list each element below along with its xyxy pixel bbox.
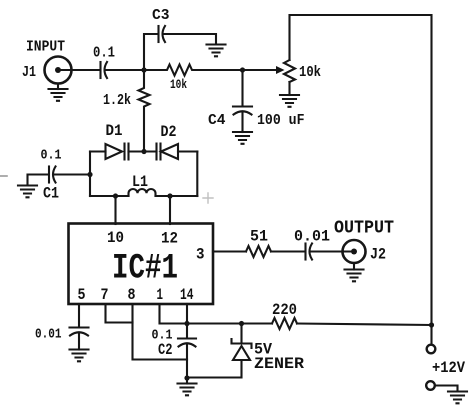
capacitor 0.01 (pin 5 bypass): [70, 326, 89, 328]
svg-text:1.2k: 1.2k: [103, 92, 131, 109]
svg-text:C1: C1: [43, 185, 59, 203]
wire loop bottom right: [156, 195, 198, 197]
svg-text:14: 14: [180, 286, 194, 304]
wire input cap to node A: [106, 69, 145, 71]
wire node A up and right to C3: [144, 34, 158, 70]
supply wire pin14 to 220: [187, 322, 272, 324]
svg-text:51: 51: [250, 228, 268, 246]
zener diode 5V: [240, 324, 242, 344]
wire D2 to loop right: [178, 150, 197, 152]
wire C3 to ground: [164, 34, 217, 45]
ground (pin5 cap): [70, 350, 89, 362]
ground (main, under C2): [186, 378, 188, 384]
wire C1 to loop: [54, 173, 90, 175]
wire pot bottom to ground: [288, 82, 290, 95]
capacitor C4: [233, 105, 252, 107]
ground (J2): [353, 263, 355, 270]
connector J2 (BNC output jack): [343, 240, 366, 263]
svg-text:10: 10: [107, 229, 124, 247]
node A (junction at 144,70): [141, 67, 146, 72]
artifact cross: [203, 193, 213, 203]
varactor diode D1: [106, 144, 123, 159]
capacitor C2: [178, 337, 196, 339]
ground (pot): [280, 95, 299, 107]
wire 220 to +12V rail: [297, 324, 432, 326]
svg-text:100 uF: 100 uF: [257, 112, 305, 129]
svg-text:+12V: +12V: [432, 359, 466, 377]
resistor 51: [246, 246, 271, 257]
node E (pin10 tap): [113, 193, 118, 198]
potentiometer 10k: [284, 60, 295, 82]
resistor 1.2k (vertical): [139, 70, 150, 152]
op-amp U1 (IC#1 box): [69, 224, 214, 305]
terminal gnd (open circle): [426, 381, 435, 390]
wire loop bottom left: [90, 195, 129, 197]
wire pin 1 down/right: [160, 304, 188, 324]
wire loop right edge: [196, 152, 198, 197]
svg-text:D1: D1: [106, 122, 123, 140]
wire gnd terminal to ground: [435, 386, 458, 392]
node H (zener return): [184, 375, 189, 380]
wire pin 14 down: [186, 304, 188, 338]
ground (C1): [18, 186, 37, 198]
capacitor 0.01 (output): [304, 244, 306, 260]
wire to pin 12: [169, 196, 171, 224]
svg-text:INPUT: INPUT: [26, 39, 65, 56]
wire pot top to +12V rail (top): [290, 15, 432, 345]
ground (C3): [207, 45, 226, 57]
svg-text:D2: D2: [161, 123, 177, 141]
node I (zener top): [239, 321, 244, 326]
wire loop left to D1: [90, 150, 106, 152]
svg-text:12: 12: [161, 230, 178, 248]
capacitor C4 100uF wire: [241, 70, 243, 106]
wire cap to J2: [311, 250, 353, 252]
svg-text:7: 7: [101, 286, 109, 304]
ground (C4): [233, 132, 252, 144]
svg-text:1: 1: [157, 286, 164, 304]
wire node B to pot wiper arrow: [243, 69, 277, 71]
svg-text:J2: J2: [370, 246, 386, 264]
node D (C1 joins loop): [87, 172, 92, 177]
capacitor 0.1 (input coupling): [99, 62, 101, 78]
wiper arrow (pot): [276, 66, 285, 74]
svg-text:5: 5: [78, 286, 86, 304]
svg-text:J1: J1: [22, 64, 36, 81]
capacitor C1 wire from ground: [28, 175, 49, 186]
resistor 10k (series, top): [144, 65, 243, 76]
wire loop left edge: [89, 152, 91, 197]
capacitor C3: [157, 26, 159, 42]
node C (junction diodes / 1.2k): [141, 149, 146, 154]
svg-text:0.1: 0.1: [93, 46, 115, 62]
svg-text:IC#1: IC#1: [112, 249, 178, 289]
svg-text:ZENER: ZENER: [254, 355, 304, 373]
connector J1 (BNC input jack): [45, 57, 72, 84]
capacitor C1: [48, 167, 50, 183]
svg-text:10k: 10k: [299, 65, 321, 81]
node F (pin12 tap): [167, 193, 172, 198]
svg-text:C3: C3: [152, 8, 170, 24]
terminal +12V (open circle): [427, 345, 436, 354]
resistor 220: [272, 318, 297, 329]
svg-text:C2: C2: [158, 341, 173, 359]
wire pin 8 down/right: [133, 304, 188, 360]
wire 51 to output cap: [271, 250, 305, 252]
svg-text:C4: C4: [208, 112, 226, 129]
svg-text:0.1: 0.1: [41, 148, 62, 164]
varactor diode D2: [157, 144, 161, 160]
artifact dash: [0, 175, 7, 177]
ground (under J1): [49, 84, 68, 101]
wire pin 7 down/right: [106, 304, 133, 323]
svg-text:220: 220: [272, 301, 297, 319]
svg-text:10k: 10k: [170, 77, 187, 92]
wire to pin 10: [114, 196, 116, 224]
ground (supply return): [448, 392, 467, 404]
svg-text:8: 8: [128, 286, 136, 304]
wire J1 to input cap: [60, 69, 100, 71]
svg-text:L1: L1: [132, 173, 148, 191]
svg-text:3: 3: [196, 246, 205, 264]
svg-text:0.01: 0.01: [294, 228, 330, 246]
svg-text:OUTPUT: OUTPUT: [334, 219, 394, 239]
inductor L1: [129, 189, 156, 196]
node J (rail junction): [429, 322, 434, 327]
svg-text:0.01: 0.01: [35, 327, 62, 343]
node B (junction at 242.5,70): [240, 67, 245, 72]
wire pin 3 out: [213, 250, 246, 252]
wire D1 to node C to D2: [129, 150, 157, 152]
wire pin 5 down: [78, 304, 80, 327]
node G (pin14 / supply): [184, 321, 189, 326]
